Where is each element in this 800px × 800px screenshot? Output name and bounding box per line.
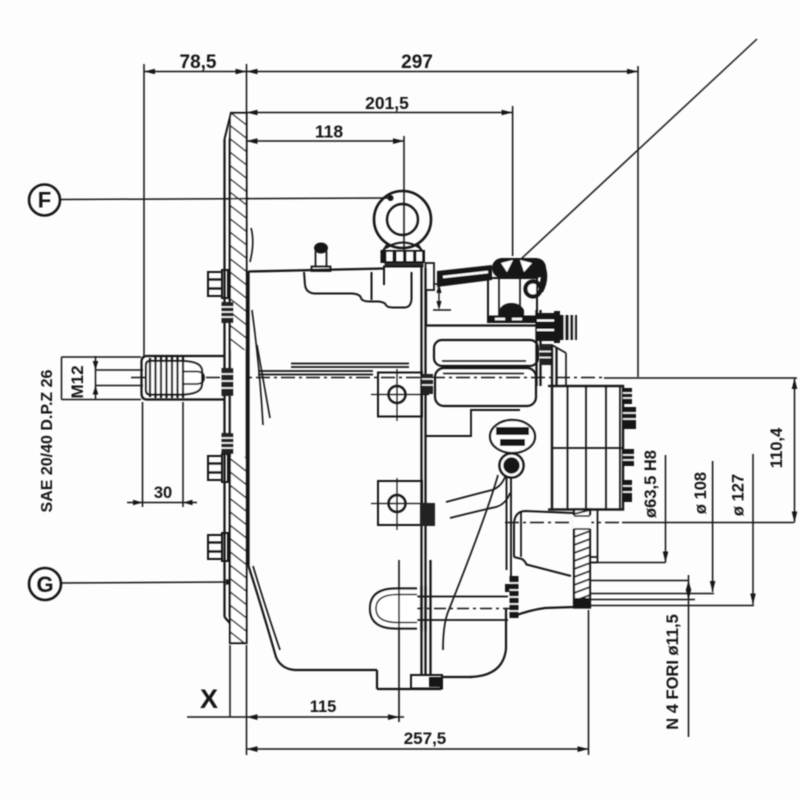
svg-text:ø 127: ø 127	[730, 474, 748, 516]
flange plate hatch lower	[231, 457, 246, 642]
dimension line 78,5	[144, 71, 247, 73]
dimension line 297	[247, 71, 639, 73]
step shelf below valve blocks	[426, 410, 520, 436]
flange joint stud column	[510, 576, 519, 618]
step to valve platform	[425, 290, 427, 326]
pipe foot	[411, 675, 442, 689]
svg-text:201,5: 201,5	[365, 93, 409, 113]
spline crown	[146, 361, 202, 395]
flange bolt B3	[208, 533, 228, 561]
svg-text:SAE 20/40 D.P.Z 26: SAE 20/40 D.P.Z 26	[39, 369, 56, 512]
dimension line 115	[187, 716, 404, 718]
ledge lines lower	[258, 370, 373, 372]
bolt hole boss upper	[371, 369, 429, 421]
valve body	[488, 278, 537, 318]
svg-text:X: X	[200, 684, 218, 714]
extension line drain axis over capsule	[398, 560, 400, 722]
rear joint face	[535, 310, 537, 386]
joint stud lower	[420, 503, 435, 526]
flange plate hatch upper	[231, 114, 246, 350]
extension lines dim 30	[142, 402, 144, 507]
valve rounded block R2	[435, 368, 536, 406]
stud S1	[222, 302, 234, 323]
spline teeth	[150, 357, 183, 398]
suction tube over capsule	[420, 586, 422, 631]
svg-text:30: 30	[154, 484, 172, 502]
adapter flange plate outline	[230, 113, 247, 643]
centerline input axis	[131, 377, 604, 379]
eyebolt knurled nut	[381, 243, 426, 268]
dipstick ball	[500, 454, 524, 478]
stud S3	[222, 433, 234, 454]
casting curves near flange	[250, 228, 253, 262]
extension line output flange face	[588, 610, 590, 755]
stud S2	[222, 368, 234, 396]
rear neck	[541, 344, 553, 346]
callout F circle	[29, 185, 60, 216]
output flange disc	[573, 510, 591, 608]
leader N 4 FORI	[688, 575, 690, 737]
extension line flange face	[246, 64, 248, 112]
housing front face	[247, 271, 249, 566]
diagonal leader to shift lever	[521, 39, 757, 259]
svg-text:M12: M12	[68, 365, 87, 398]
output support bracket	[514, 511, 573, 557]
extension line dim 201,5	[512, 106, 514, 256]
svg-text:257,5: 257,5	[404, 729, 447, 748]
dimension line 201,5	[247, 112, 513, 114]
dimension line 257,5	[247, 748, 589, 750]
output bearing housing block	[552, 386, 623, 510]
front housing rear wall	[506, 453, 508, 570]
sump bottom	[318, 669, 377, 671]
sump front wall	[249, 566, 319, 670]
M12 dimension	[95, 356, 97, 400]
svg-text:78,5: 78,5	[180, 52, 217, 73]
flange bolt B2	[208, 454, 228, 482]
svg-text:297: 297	[401, 52, 433, 73]
bell flare to output flange	[514, 607, 574, 616]
svg-text:118: 118	[315, 122, 343, 142]
dipstick S-curve	[443, 475, 498, 650]
valve rounded block R1	[434, 340, 538, 366]
clutch housing contour lines	[446, 477, 505, 502]
dimension ø63,5 H8	[592, 562, 666, 564]
filler plug	[312, 243, 331, 272]
svg-text:110,4: 110,4	[768, 427, 786, 468]
eyebolt pad	[384, 267, 422, 286]
housing joint verticals	[420, 268, 422, 675]
centerline output axis	[505, 522, 622, 524]
top pocket contour	[304, 272, 412, 308]
svg-text:N 4 FORI ø11,5: N 4 FORI ø11,5	[664, 614, 682, 730]
engine side thin plate	[223, 139, 225, 617]
callout G circle	[29, 568, 61, 600]
leader from G	[61, 582, 230, 583]
svg-text:ø63,5 H8: ø63,5 H8	[642, 450, 660, 518]
dimension line 118	[247, 140, 405, 142]
drain capsule boss	[370, 589, 417, 629]
joint stud on centerline	[422, 374, 433, 394]
leader from F	[60, 198, 389, 200]
valve bracket block	[426, 263, 435, 290]
svg-text:ø 108: ø 108	[692, 472, 710, 514]
bolt hole boss lower	[371, 478, 429, 530]
bolt hole edge lines	[590, 580, 689, 582]
svg-text:F: F	[38, 188, 51, 213]
eyebolt ring	[374, 191, 431, 248]
pivot right band	[540, 262, 544, 291]
output pilot hub	[590, 509, 598, 563]
ledge lines upper	[291, 363, 409, 365]
rear stud below	[540, 346, 552, 365]
dimension line 30	[127, 502, 197, 504]
extension line flange face bottom	[246, 645, 248, 755]
rear joint bolts	[537, 311, 577, 343]
housing top edge	[249, 269, 385, 272]
svg-text:115: 115	[310, 698, 337, 716]
lever pivot capsule	[492, 258, 546, 278]
valve bottom cap	[499, 303, 524, 317]
input shaft outline	[142, 356, 226, 400]
extension line left of dim 78,5	[143, 64, 145, 356]
dimension ø 108	[712, 461, 714, 592]
shift lever arm	[437, 265, 492, 287]
eyebolt neck	[383, 245, 387, 251]
shaft pilot hub	[183, 372, 204, 385]
suction pipe	[429, 560, 431, 675]
lever ball joint	[526, 282, 541, 297]
extension line X left	[229, 645, 231, 717]
block right bolts	[623, 388, 636, 502]
svg-text:G: G	[36, 572, 53, 597]
drain pipe lines	[417, 596, 508, 598]
dimension ø 127	[752, 454, 754, 605]
lever travel arrows	[433, 284, 451, 310]
valve platform	[426, 324, 540, 326]
extension line dim 118	[403, 136, 405, 266]
flange bolt B1	[208, 270, 228, 298]
dimension line 110,4	[794, 378, 796, 523]
extension line dim 297	[637, 66, 639, 377]
SAE bracket line	[61, 357, 63, 400]
valve base plate	[487, 316, 541, 324]
centerline drain boss axis	[388, 608, 513, 610]
dipstick handle	[490, 420, 535, 453]
bell lower right corner	[470, 608, 506, 677]
leader F over plate	[224, 198, 249, 200]
extension line y378 right for 110,4	[604, 377, 797, 379]
